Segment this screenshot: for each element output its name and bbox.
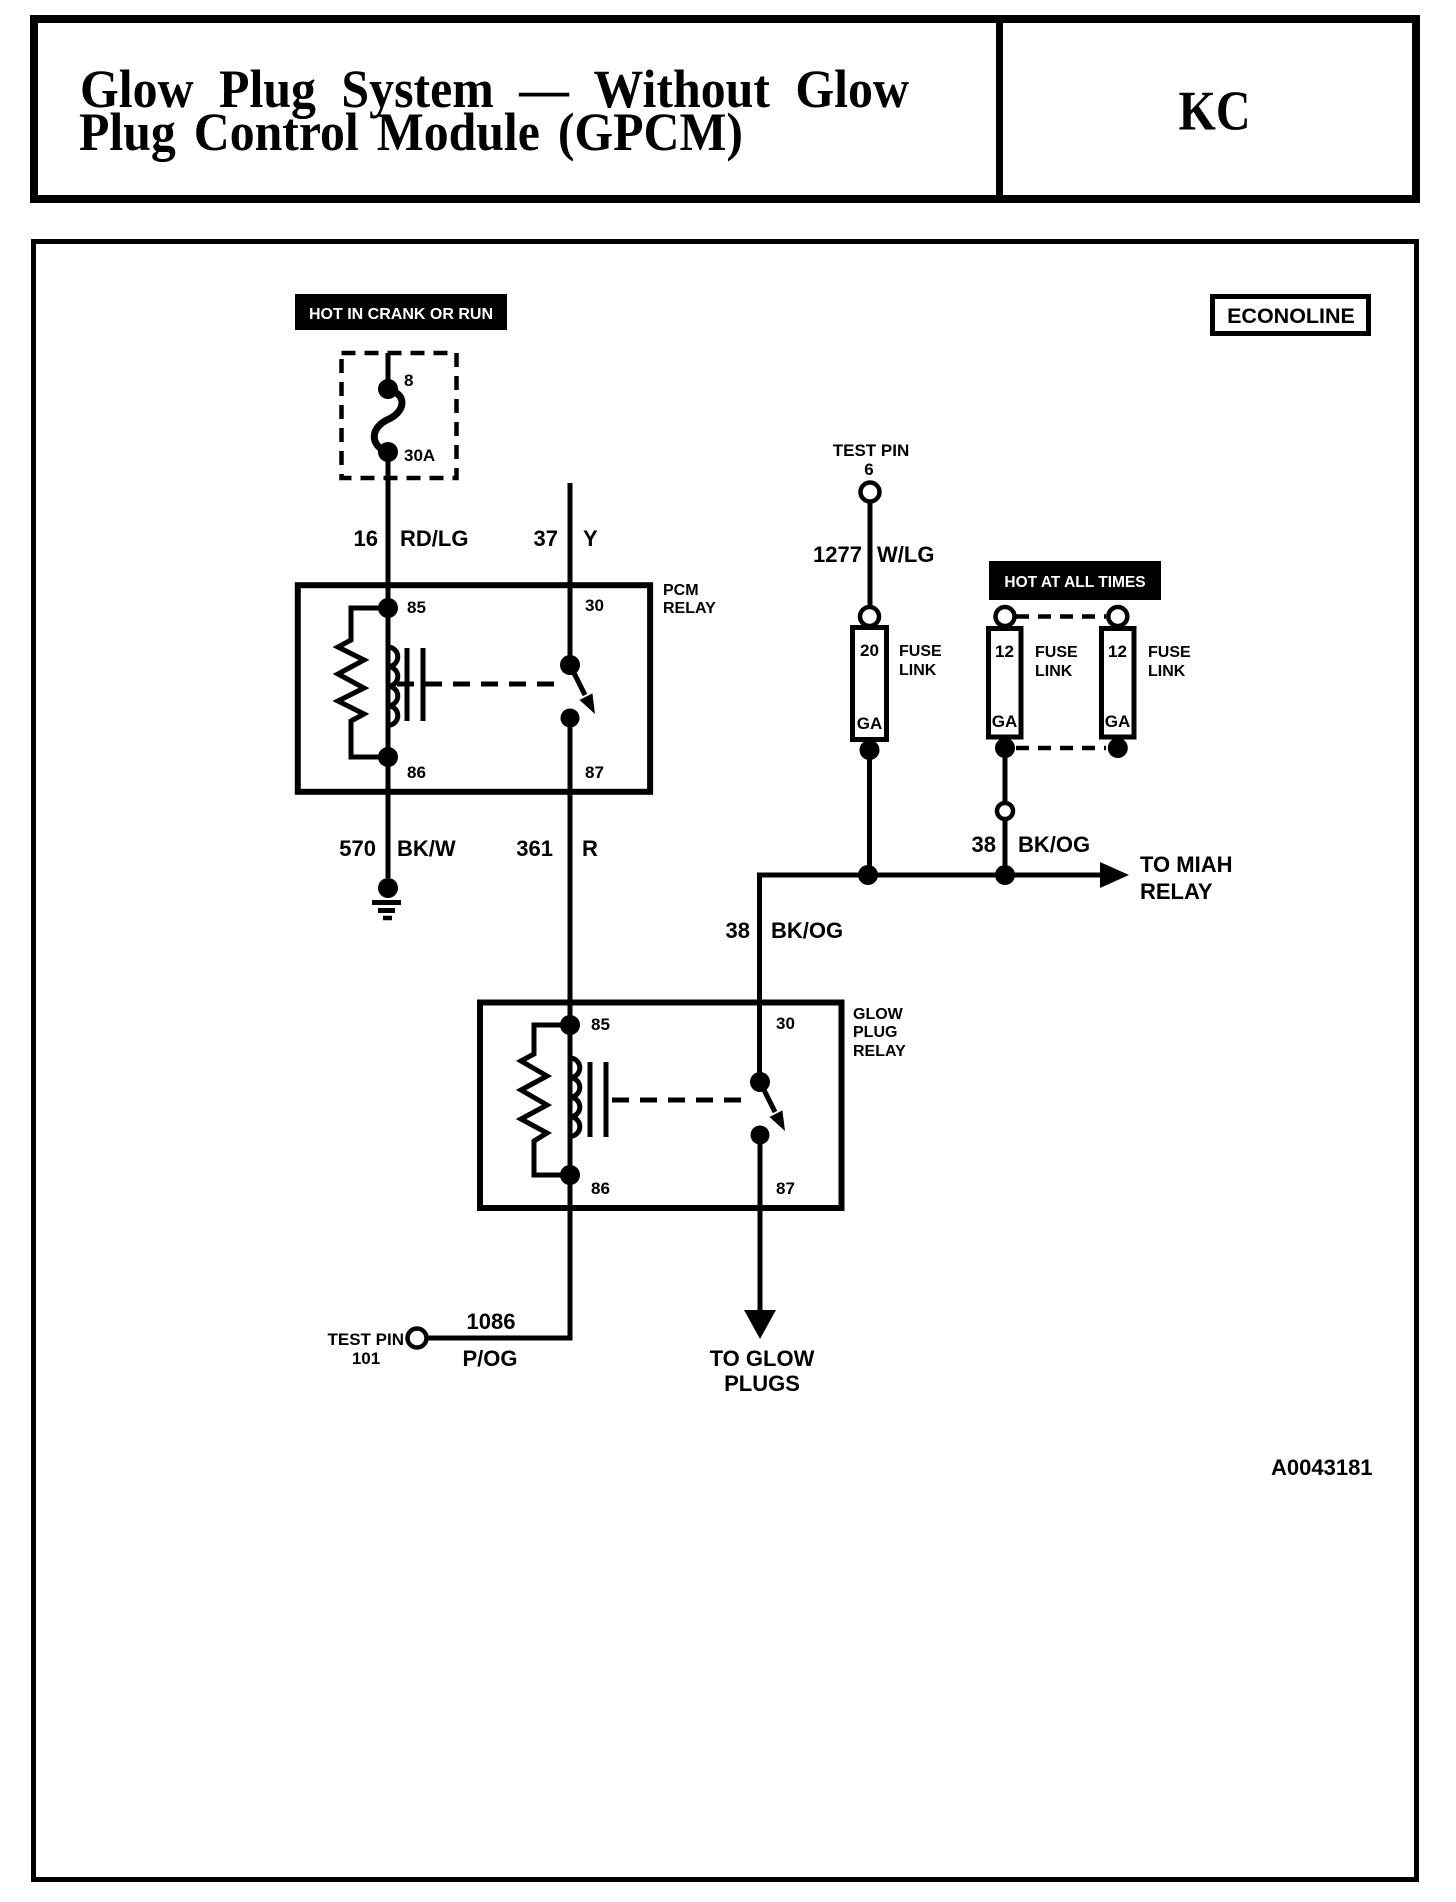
HOT AT ALL TIMES banner [989,561,1161,600]
wire: PCM pin 87 down to glow plug relay [568,718,573,1025]
wire: FL2 down to bus [1003,748,1008,875]
svg-text:30: 30 [776,1014,795,1033]
inline connector [997,803,1013,819]
fuse node 30A [378,442,398,462]
pin 86 [378,747,398,767]
switch arm [760,1082,775,1112]
core bar 1 [405,648,410,721]
svg-text:R: R [582,836,598,861]
pin 85 [378,598,398,618]
svg-text:38: 38 [726,918,750,943]
wire stub into fuse [386,353,391,389]
svg-text:30A: 30A [404,446,435,465]
fuse node 8 [378,379,398,399]
test pin 6 [833,441,910,502]
title divider [996,15,1003,203]
junction node A [858,865,878,885]
svg-text:1086: 1086 [467,1309,516,1334]
wire: glow relay pin 87 to glow plugs [758,1135,763,1312]
svg-text:Y: Y [583,526,598,551]
wire: glow relay pin 86 down [568,1175,573,1338]
svg-text:RELAY: RELAY [1140,879,1213,904]
svg-text:BK/OG: BK/OG [1018,832,1090,857]
svg-text:87: 87 [776,1179,795,1198]
fuse F1 dashed box [342,353,457,478]
actuation dashed link [612,1098,752,1103]
svg-text:GA: GA [992,712,1018,731]
core bar 2 [421,648,426,721]
wire: fuse link 1 to bus [867,750,872,875]
svg-text:LINK: LINK [899,662,937,679]
svg-text:86: 86 [591,1179,610,1198]
svg-text:87: 87 [585,763,604,782]
svg-text:RELAY: RELAY [853,1043,906,1060]
svg-text:8: 8 [404,371,413,390]
ECONOLINE box [1213,297,1369,334]
switch arm [570,665,585,695]
fuse link FL2 12 GA [989,607,1079,758]
svg-text:85: 85 [591,1015,610,1034]
svg-text:GLOW: GLOW [853,1006,904,1023]
svg-text:LINK: LINK [1148,663,1186,680]
svg-text:HOT AT ALL TIMES: HOT AT ALL TIMES [1004,574,1145,591]
junction node B [995,865,1015,885]
svg-text:20: 20 [860,641,879,660]
svg-text:ECONOLINE: ECONOLINE [1227,304,1355,328]
dashed link top between FL2 FL3 [1016,614,1106,619]
svg-text:570: 570 [339,836,376,861]
svg-text:1277: 1277 [813,542,862,567]
svg-text:TO GLOW: TO GLOW [710,1346,815,1371]
svg-text:BK/W: BK/W [397,836,456,861]
fuse link FL3 12 GA [1102,607,1192,758]
switch common node [560,655,580,675]
svg-text:FUSE: FUSE [1148,644,1191,661]
svg-text:TO MIAH: TO MIAH [1140,852,1232,877]
svg-text:GA: GA [857,714,883,733]
svg-text:6: 6 [864,460,873,479]
wire: 37 Y into PCM relay pin 30 [568,483,573,665]
pin 85 [560,1015,580,1035]
svg-text:12: 12 [1108,642,1127,661]
svg-text:85: 85 [407,598,426,617]
svg-text:RELAY: RELAY [663,600,716,617]
svg-text:12: 12 [995,642,1014,661]
title block frame [34,15,1416,203]
coil L2 [570,1058,580,1136]
svg-text:PCM: PCM [663,582,699,599]
svg-text:TEST PIN: TEST PIN [833,441,910,460]
svg-text:KC: KC [1179,81,1251,143]
switch contact node [751,1126,770,1145]
arrow to glow plugs [744,1310,776,1339]
arrow to MIAH relay [1100,862,1129,888]
resistor R1 [338,608,388,757]
svg-text:A0043181: A0043181 [1271,1455,1373,1480]
svg-text:P/OG: P/OG [462,1346,517,1371]
HOT IN CRANK OR RUN banner [295,294,507,330]
svg-text:86: 86 [407,763,426,782]
wire: fuse to PCM relay pin 85 [386,452,391,608]
svg-text:Plug Control Module (GPCM): Plug Control Module (GPCM) [79,102,743,162]
svg-text:FUSE: FUSE [1035,644,1078,661]
actuation dashed link [397,682,563,687]
bus wire to MIAH relay [760,873,1104,878]
svg-text:FUSE: FUSE [899,643,942,660]
svg-text:101: 101 [352,1349,380,1368]
pin 86 [560,1165,580,1185]
svg-text:PLUGS: PLUGS [724,1371,800,1396]
svg-text:BK/OG: BK/OG [771,918,843,943]
svg-text:PLUG: PLUG [853,1024,897,1041]
svg-text:HOT IN CRANK OR RUN: HOT IN CRANK OR RUN [309,306,493,323]
test pin 101 [327,1329,426,1369]
fuse link FL1 20 GA [853,607,943,760]
coil L1 [388,647,398,725]
switch common node [750,1072,770,1092]
switch contact node [561,709,580,728]
coil wire 85-86 [386,608,391,757]
svg-text:RD/LG: RD/LG [400,526,468,551]
wire: bus corner down to glow plug relay pin 30 [757,873,762,1083]
svg-text:16: 16 [354,526,378,551]
svg-text:LINK: LINK [1035,663,1073,680]
svg-text:W/LG: W/LG [877,542,934,567]
relay U1 PCM relay box [298,582,716,792]
svg-text:TEST PIN: TEST PIN [327,1330,404,1349]
svg-text:37: 37 [534,526,558,551]
svg-text:GA: GA [1105,712,1131,731]
relay U2 glow plug relay box [480,1003,906,1209]
core bar 1 [588,1062,593,1137]
svg-text:38: 38 [972,832,996,857]
wire: test pin 6 to fuse link [868,502,873,607]
svg-text:30: 30 [585,596,604,615]
core bar 2 [604,1062,609,1137]
wire: pin 86 to ground [386,757,391,878]
svg-text:361: 361 [516,836,553,861]
resistor R2 [521,1025,570,1175]
coil wire 85-86 [568,1025,573,1175]
wire: test pin 101 horizontal [427,1336,573,1341]
ground G1 [372,878,401,918]
dashed link bottom between FL2 FL3 [1016,746,1106,751]
fuse element [374,390,402,452]
